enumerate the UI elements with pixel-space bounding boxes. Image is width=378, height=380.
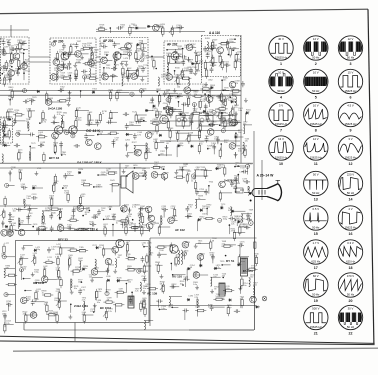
svg-text:A 26–14 W: A 26–14 W — [257, 174, 275, 178]
svg-text:22: 22 — [349, 332, 353, 336]
svg-text:4.7k: 4.7k — [22, 269, 26, 271]
svg-text:10n: 10n — [35, 282, 38, 284]
svg-text:5.6n: 5.6n — [197, 54, 201, 56]
svg-text:12k: 12k — [172, 286, 175, 288]
svg-text:4.7k: 4.7k — [222, 243, 226, 245]
svg-text:10n: 10n — [251, 267, 254, 269]
svg-text:1k: 1k — [7, 42, 9, 44]
svg-text:1k: 1k — [42, 293, 44, 295]
svg-text:10n: 10n — [184, 279, 187, 281]
svg-text:500 V: 500 V — [312, 307, 319, 311]
svg-text:10n: 10n — [97, 302, 100, 304]
svg-text:4.7k: 4.7k — [91, 67, 95, 69]
svg-text:12k: 12k — [194, 94, 197, 96]
svg-text:5.6n: 5.6n — [238, 110, 242, 112]
svg-text:3 V: 3 V — [348, 137, 352, 141]
svg-text:4.7k: 4.7k — [234, 218, 238, 220]
svg-text:10: 10 — [279, 162, 283, 166]
svg-text:10n: 10n — [101, 210, 104, 212]
svg-text:5.6n: 5.6n — [114, 140, 118, 142]
svg-text:12k: 12k — [61, 61, 64, 63]
svg-text:2.2k: 2.2k — [63, 188, 67, 190]
svg-text:3: 3 — [350, 62, 352, 66]
svg-text:10n: 10n — [240, 244, 243, 246]
svg-text:1: 1 — [280, 62, 282, 66]
svg-text:625 Hz: 625 Hz — [346, 259, 355, 263]
svg-text:2.2k: 2.2k — [135, 291, 139, 293]
svg-text:1k: 1k — [32, 99, 34, 101]
svg-text:15625 Hz: 15625 Hz — [345, 89, 358, 93]
svg-text:12k: 12k — [90, 311, 93, 313]
svg-text:m: m — [219, 219, 221, 222]
svg-text:10n: 10n — [13, 211, 16, 213]
svg-text:10n: 10n — [155, 264, 158, 266]
svg-text:5.6n: 5.6n — [119, 290, 123, 292]
svg-text:12k: 12k — [245, 141, 248, 143]
svg-text:5.6n: 5.6n — [228, 210, 232, 212]
svg-text:4.7k: 4.7k — [153, 141, 157, 143]
svg-text:5.6n: 5.6n — [92, 76, 96, 78]
svg-text:2.2k: 2.2k — [193, 274, 197, 276]
svg-text:4.7k: 4.7k — [132, 206, 136, 208]
svg-text:12k: 12k — [43, 268, 46, 270]
svg-text:5.6n: 5.6n — [11, 225, 15, 227]
svg-text:1k: 1k — [63, 115, 65, 117]
svg-text:50 Hz: 50 Hz — [347, 325, 355, 329]
svg-text:10n: 10n — [59, 52, 62, 54]
svg-text:2.2k: 2.2k — [150, 133, 154, 135]
svg-text:1k: 1k — [142, 245, 144, 247]
svg-text:2.2k: 2.2k — [81, 182, 85, 184]
svg-text:12k: 12k — [63, 132, 66, 134]
svg-text:BFY 33: BFY 33 — [49, 156, 59, 160]
svg-text:AF 102: AF 102 — [175, 228, 185, 232]
svg-text:10n: 10n — [127, 70, 130, 72]
svg-text:5.6n: 5.6n — [98, 291, 102, 293]
svg-text:5.6n: 5.6n — [216, 296, 220, 298]
svg-text:12k: 12k — [142, 227, 145, 229]
svg-text:12k: 12k — [188, 135, 191, 137]
svg-text:13: 13 — [314, 198, 318, 202]
svg-text:4.7k: 4.7k — [98, 134, 102, 136]
svg-text:1k: 1k — [229, 96, 231, 98]
svg-text:5.6n: 5.6n — [171, 208, 175, 210]
svg-text:12k: 12k — [142, 170, 145, 172]
svg-text:2×BA 1181: 2×BA 1181 — [74, 304, 88, 308]
svg-text:10 V: 10 V — [278, 71, 284, 75]
svg-text:5.6n: 5.6n — [224, 142, 228, 144]
svg-text:4.7k: 4.7k — [28, 215, 32, 217]
svg-text:12k: 12k — [8, 66, 11, 68]
svg-text:4.5 V: 4.5 V — [347, 104, 354, 108]
svg-text:1k: 1k — [240, 299, 242, 301]
svg-text:10 V: 10 V — [313, 104, 319, 108]
svg-text:10n: 10n — [74, 288, 77, 290]
svg-text:2.2k: 2.2k — [144, 58, 148, 60]
svg-text:10n: 10n — [254, 256, 257, 258]
svg-text:2.2k: 2.2k — [194, 297, 198, 299]
svg-text:21: 21 — [314, 332, 318, 336]
svg-text:5.6n: 5.6n — [39, 134, 43, 136]
svg-text:4.7k: 4.7k — [188, 206, 192, 208]
svg-text:7: 7 — [280, 129, 282, 133]
svg-text:AU 110: AU 110 — [172, 275, 182, 279]
svg-text:12k: 12k — [240, 221, 243, 223]
svg-text:1k: 1k — [48, 259, 50, 261]
svg-text:12k: 12k — [26, 121, 29, 123]
svg-text:2.2k: 2.2k — [229, 182, 233, 184]
svg-text:12k: 12k — [140, 120, 143, 122]
svg-text:4.7k: 4.7k — [82, 45, 86, 47]
svg-text:50 Hz: 50 Hz — [312, 89, 320, 93]
svg-text:10n: 10n — [200, 256, 203, 258]
svg-text:4.7k: 4.7k — [187, 216, 191, 218]
svg-text:2: 2 — [315, 62, 317, 66]
svg-text:6: 6 — [350, 96, 352, 100]
svg-text:15 V: 15 V — [348, 71, 354, 75]
svg-text:5.6n: 5.6n — [142, 306, 146, 308]
svg-text:12k: 12k — [166, 92, 169, 94]
svg-text:5: 5 — [315, 96, 317, 100]
svg-text:5.6n: 5.6n — [83, 268, 87, 270]
svg-text:50 Hz: 50 Hz — [312, 292, 320, 296]
svg-text:15625 Hz: 15625 Hz — [310, 325, 323, 329]
svg-text:4.7k: 4.7k — [55, 256, 59, 258]
svg-text:4.7k: 4.7k — [1, 52, 5, 54]
svg-text:15625 Hz: 15625 Hz — [345, 155, 358, 159]
svg-text:12 V: 12 V — [313, 37, 319, 41]
svg-text:5.6n: 5.6n — [208, 306, 212, 308]
svg-text:4.7k: 4.7k — [180, 119, 184, 121]
svg-text:2.2k: 2.2k — [58, 226, 62, 228]
svg-text:1k: 1k — [51, 214, 53, 216]
svg-text:12k: 12k — [161, 77, 164, 79]
svg-text:1k: 1k — [148, 218, 150, 220]
svg-text:10n: 10n — [238, 132, 241, 134]
svg-text:50 Hz: 50 Hz — [312, 225, 320, 229]
svg-text:1k: 1k — [11, 169, 13, 171]
svg-text:12k: 12k — [163, 121, 166, 123]
svg-text:BFY 33: BFY 33 — [58, 238, 68, 242]
svg-text:50 Hz: 50 Hz — [347, 191, 355, 195]
svg-text:10n: 10n — [126, 243, 129, 245]
svg-text:10n: 10n — [6, 303, 9, 305]
svg-text:4.7k: 4.7k — [57, 114, 61, 116]
svg-text:2.2k: 2.2k — [211, 97, 215, 99]
svg-text:2.2k: 2.2k — [128, 216, 132, 218]
svg-text:12k: 12k — [143, 67, 146, 69]
svg-text:10n: 10n — [218, 55, 221, 57]
svg-text:2.2k: 2.2k — [67, 174, 71, 176]
svg-text:10n: 10n — [247, 218, 250, 220]
svg-text:1k: 1k — [116, 223, 118, 225]
svg-text:12k: 12k — [115, 54, 118, 56]
svg-text:2.2k: 2.2k — [121, 75, 125, 77]
svg-text:1k: 1k — [121, 210, 123, 212]
svg-text:1k: 1k — [78, 208, 80, 210]
svg-text:2×OA 1180: 2×OA 1180 — [48, 107, 63, 111]
svg-text:220 V: 220 V — [347, 173, 354, 177]
svg-text:12k: 12k — [87, 45, 90, 47]
svg-text:5.6n: 5.6n — [60, 89, 64, 91]
svg-text:3 V: 3 V — [279, 104, 283, 108]
svg-text:1k: 1k — [99, 247, 101, 249]
svg-text:15625 Hz: 15625 Hz — [275, 55, 288, 59]
svg-text:12: 12 — [349, 162, 353, 166]
svg-text:50 Hz: 50 Hz — [347, 55, 355, 59]
svg-text:2.2k: 2.2k — [149, 255, 153, 257]
svg-text:4.7k: 4.7k — [96, 186, 100, 188]
svg-text:10n: 10n — [27, 110, 30, 112]
svg-text:4 V: 4 V — [348, 207, 352, 211]
svg-text:4.7k: 4.7k — [216, 267, 220, 269]
svg-text:12 V: 12 V — [348, 37, 354, 41]
svg-text:10n: 10n — [4, 136, 7, 138]
svg-text:12k: 12k — [231, 224, 234, 226]
svg-text:10n: 10n — [243, 124, 246, 126]
svg-text:AF 200: AF 200 — [53, 40, 64, 44]
svg-text:5.6n: 5.6n — [7, 76, 11, 78]
svg-text:10n: 10n — [207, 148, 210, 150]
svg-text:AC 139: AC 139 — [147, 292, 158, 296]
svg-text:12k: 12k — [175, 133, 178, 135]
svg-text:12k: 12k — [89, 277, 92, 279]
svg-text:1k: 1k — [3, 72, 5, 74]
svg-text:60 V: 60 V — [313, 274, 319, 278]
svg-text:625 Hz: 625 Hz — [311, 259, 320, 263]
svg-text:4.7k: 4.7k — [209, 112, 213, 114]
svg-text:4.7k: 4.7k — [15, 112, 19, 114]
svg-text:50 Hz: 50 Hz — [312, 191, 320, 195]
svg-text:15625 Hz: 15625 Hz — [275, 122, 288, 126]
svg-text:20: 20 — [349, 299, 353, 303]
svg-text:12k: 12k — [6, 323, 9, 325]
svg-text:30 V: 30 V — [348, 307, 354, 311]
svg-text:9: 9 — [350, 129, 352, 133]
svg-text:2.2k: 2.2k — [94, 52, 98, 54]
svg-text:15625 Hz: 15625 Hz — [310, 122, 323, 126]
svg-text:12k: 12k — [41, 144, 44, 146]
svg-text:15625 Hz: 15625 Hz — [310, 155, 323, 159]
svg-text:12k: 12k — [176, 257, 179, 259]
svg-text:1.7 V: 1.7 V — [313, 241, 320, 245]
svg-text:4.7k: 4.7k — [82, 300, 86, 302]
svg-text:5.6n: 5.6n — [193, 284, 197, 286]
svg-text:A A 110: A A 110 — [209, 31, 220, 35]
svg-text:4.7k: 4.7k — [53, 314, 57, 316]
svg-text:1k: 1k — [89, 224, 91, 226]
svg-text:1k: 1k — [235, 164, 237, 166]
svg-text:5.6n: 5.6n — [153, 121, 157, 123]
svg-text:5.6n: 5.6n — [161, 308, 165, 310]
svg-text:5.6n: 5.6n — [26, 198, 30, 200]
svg-text:DY 51: DY 51 — [226, 259, 235, 263]
svg-text:1k: 1k — [165, 75, 167, 77]
svg-text:5.6n: 5.6n — [238, 150, 242, 152]
svg-text:19: 19 — [314, 299, 318, 303]
svg-text:50 V: 50 V — [313, 173, 319, 177]
svg-text:4.7k: 4.7k — [201, 101, 205, 103]
svg-text:1k: 1k — [198, 198, 200, 200]
svg-text:4.7k: 4.7k — [142, 300, 146, 302]
svg-text:10n: 10n — [100, 27, 103, 29]
svg-text:12k: 12k — [242, 148, 245, 150]
svg-text:10n: 10n — [129, 225, 132, 227]
svg-text:1k: 1k — [71, 218, 73, 220]
svg-text:5.6n: 5.6n — [120, 27, 124, 29]
svg-text:4.7k: 4.7k — [102, 75, 106, 77]
svg-text:16: 16 — [349, 232, 353, 236]
svg-text:2.2k: 2.2k — [54, 183, 58, 185]
svg-text:1k: 1k — [187, 69, 189, 71]
svg-text:1k: 1k — [243, 181, 245, 183]
svg-text:470 V: 470 V — [347, 274, 354, 278]
svg-text:1k: 1k — [13, 60, 15, 62]
svg-text:5.6n: 5.6n — [215, 111, 219, 113]
svg-text:12k: 12k — [22, 43, 25, 45]
svg-text:15625 Hz: 15625 Hz — [345, 122, 358, 126]
svg-text:50 Hz: 50 Hz — [347, 292, 355, 296]
svg-text:5.6n: 5.6n — [243, 285, 247, 287]
svg-text:15625 Hz: 15625 Hz — [345, 225, 358, 229]
svg-text:4.7k: 4.7k — [42, 122, 46, 124]
svg-text:10n: 10n — [68, 75, 71, 77]
svg-text:5.6n: 5.6n — [253, 285, 257, 287]
svg-text:2.2k: 2.2k — [89, 122, 93, 124]
svg-text:10n: 10n — [95, 122, 98, 124]
svg-text:15: 15 — [314, 232, 318, 236]
svg-text:50 Hz: 50 Hz — [312, 55, 320, 59]
svg-text:OA 1180 AC 188 K: OA 1180 AC 188 K — [77, 161, 103, 165]
svg-text:10n: 10n — [211, 145, 214, 147]
svg-text:5.6n: 5.6n — [67, 100, 71, 102]
svg-text:1k: 1k — [102, 113, 104, 115]
svg-text:4: 4 — [280, 96, 282, 100]
svg-text:10n: 10n — [223, 80, 226, 82]
svg-text:AF 202: AF 202 — [167, 43, 178, 47]
svg-text:12 V: 12 V — [313, 137, 319, 141]
svg-text:0.5 V: 0.5 V — [313, 207, 320, 211]
svg-text:12k: 12k — [6, 119, 9, 121]
svg-text:2.2k: 2.2k — [133, 27, 137, 29]
svg-text:5.6n: 5.6n — [56, 270, 60, 272]
svg-text:12k: 12k — [68, 53, 71, 55]
svg-text:14: 14 — [349, 198, 353, 202]
svg-text:10n: 10n — [53, 145, 56, 147]
svg-text:10n: 10n — [143, 288, 146, 290]
svg-text:2.2k: 2.2k — [8, 98, 12, 100]
svg-text:15625 Hz: 15625 Hz — [275, 155, 288, 159]
svg-text:2.2k: 2.2k — [16, 133, 20, 135]
svg-text:1k: 1k — [177, 96, 179, 98]
svg-text:10 V: 10 V — [313, 71, 319, 75]
svg-text:10n: 10n — [15, 71, 18, 73]
svg-text:5.6n: 5.6n — [160, 26, 164, 28]
svg-text:12k: 12k — [118, 92, 121, 94]
svg-text:13 V: 13 V — [278, 137, 284, 141]
svg-text:1k: 1k — [34, 301, 36, 303]
svg-text:4.7k: 4.7k — [81, 289, 85, 291]
svg-text:4.7k: 4.7k — [20, 223, 24, 225]
svg-text:2.2k: 2.2k — [56, 291, 60, 293]
svg-text:2.2k: 2.2k — [108, 311, 112, 313]
svg-text:4.7k: 4.7k — [137, 134, 141, 136]
svg-text:5.6n: 5.6n — [108, 91, 112, 93]
svg-text:18: 18 — [349, 266, 353, 270]
svg-text:1k: 1k — [106, 292, 108, 294]
svg-text:8: 8 — [315, 129, 317, 133]
svg-text:1k: 1k — [100, 45, 102, 47]
svg-text:2.2k: 2.2k — [188, 62, 192, 64]
svg-text:2.2k: 2.2k — [76, 62, 80, 64]
svg-text:10n: 10n — [180, 283, 183, 285]
svg-text:10n: 10n — [54, 300, 57, 302]
svg-text:50 Hz: 50 Hz — [277, 89, 285, 93]
svg-text:1k: 1k — [191, 181, 193, 183]
svg-text:12k: 12k — [128, 282, 131, 284]
svg-text:17: 17 — [314, 266, 318, 270]
svg-text:12k: 12k — [51, 249, 54, 251]
svg-text:5.6n: 5.6n — [49, 208, 53, 210]
svg-text:5.6n: 5.6n — [64, 193, 68, 195]
svg-text:4.7k: 4.7k — [175, 61, 179, 63]
svg-text:0.3 V: 0.3 V — [347, 241, 354, 245]
svg-text:40 V: 40 V — [278, 37, 284, 41]
svg-text:10n: 10n — [137, 51, 140, 53]
svg-text:1k: 1k — [213, 42, 215, 44]
svg-text:11: 11 — [314, 162, 318, 166]
svg-text:2.2k: 2.2k — [212, 47, 216, 49]
svg-text:10n: 10n — [18, 172, 21, 174]
